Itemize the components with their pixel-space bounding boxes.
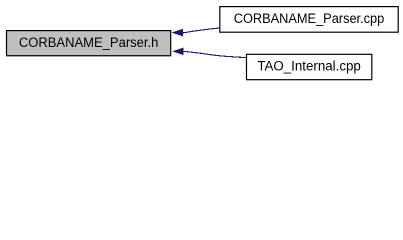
arrowhead into CORBANAME_Parser.h (bottom) [173,48,183,55]
node TAO_Internal.cpp [247,54,372,79]
svg-text:CORBANAME_Parser.h: CORBANAME_Parser.h [19,35,159,50]
svg-text:CORBANAME_Parser.cpp: CORBANAME_Parser.cpp [234,11,385,26]
node CORBANAME_Parser.h (current file, grey) [7,31,171,56]
edge TAO_Internal.cpp -> CORBANAME_Parser.h (wire) [183,51,246,57]
node CORBANAME_Parser.cpp [220,7,398,33]
svg-text:TAO_Internal.cpp: TAO_Internal.cpp [257,58,361,73]
edge CORBANAME_Parser.cpp -> CORBANAME_Parser.h (wire) [183,28,220,33]
arrowhead into CORBANAME_Parser.h (top) [172,29,182,36]
